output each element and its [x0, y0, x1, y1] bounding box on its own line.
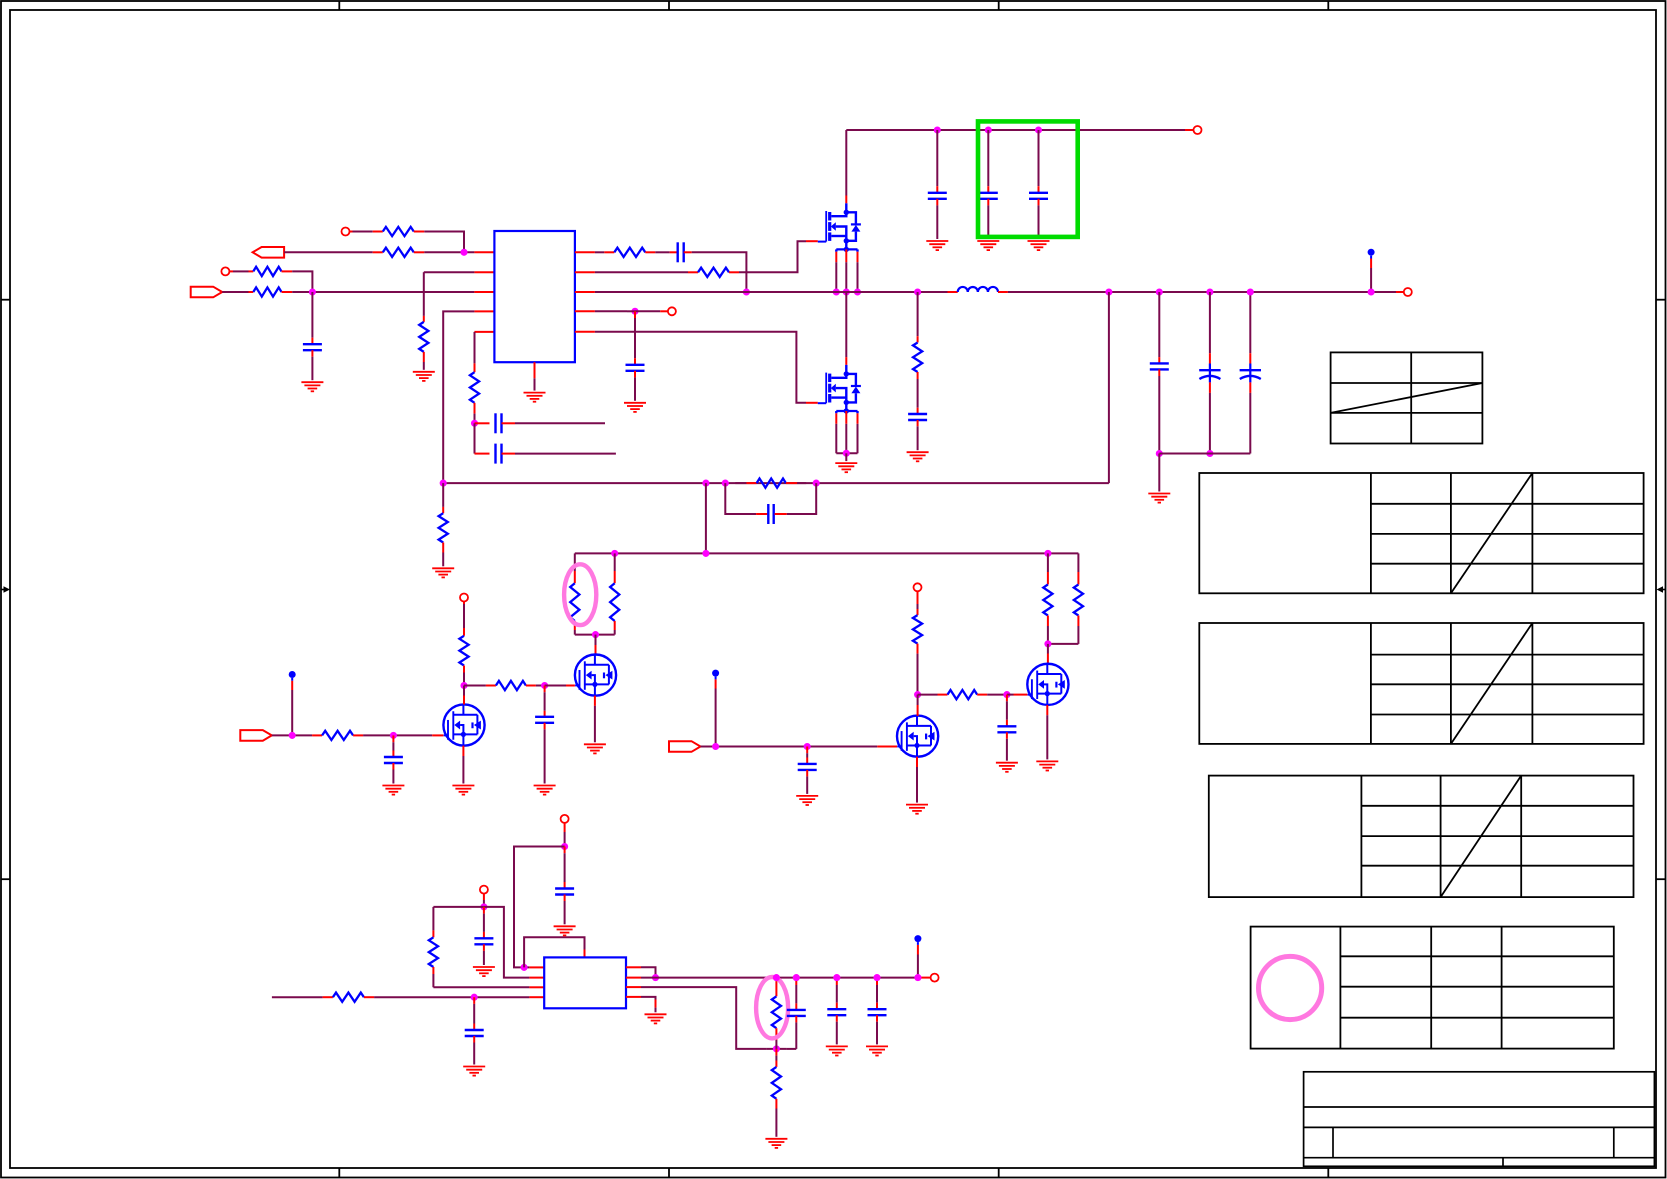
junction — [471, 994, 478, 1001]
capacitor C8 — [1038, 130, 1040, 186]
wire left branch — [433, 906, 484, 908]
no-connect pin P8 — [561, 815, 569, 823]
pin U2 right stubs — [626, 966, 641, 968]
capacitor C6 — [936, 130, 938, 186]
junction — [914, 974, 921, 981]
resistor R16 stage link — [464, 685, 486, 687]
no-connect pin P1 — [342, 228, 350, 236]
no-connect pin P5 — [1404, 288, 1412, 296]
resistor R10 to ground — [442, 483, 444, 507]
wire to bus junction — [292, 271, 312, 292]
wire — [363, 734, 432, 736]
ground — [1028, 240, 1050, 242]
wire M1 drain — [463, 686, 465, 696]
wire — [424, 251, 474, 253]
capacitor C17 — [1006, 695, 1008, 702]
switch node bus wire — [595, 291, 948, 293]
junction — [480, 903, 487, 910]
junction — [1044, 640, 1051, 647]
junction — [390, 732, 397, 739]
junctions on top rail — [934, 126, 941, 133]
no-connect pin P3 — [660, 310, 668, 312]
junction — [843, 450, 850, 457]
wire top rail down to Q1 drain — [845, 130, 847, 196]
revision table T3 — [1199, 623, 1643, 744]
border left ticks — [1, 299, 10, 301]
ground — [765, 1138, 787, 1140]
power flag VOUT — [1368, 249, 1375, 256]
resistor R15 pull-up — [463, 601, 465, 604]
green highlight box — [978, 121, 1078, 236]
wire to pin3 — [433, 986, 529, 988]
ground — [866, 1045, 888, 1047]
ground — [413, 371, 435, 373]
title block T6 — [1304, 1072, 1655, 1167]
junction — [521, 964, 528, 971]
junction — [592, 631, 599, 638]
wire M4 source to ground — [1046, 705, 1048, 715]
wire red Q2 gate lead — [806, 402, 818, 404]
wire red to pin — [1396, 291, 1404, 293]
resistor R23 upper divider — [775, 978, 777, 982]
pin U1 bottom — [534, 362, 536, 378]
ground — [926, 240, 948, 242]
wire — [845, 453, 847, 461]
border top ticks — [338, 1, 340, 10]
wire — [536, 685, 545, 687]
junction — [712, 743, 719, 750]
wire red M3 gate lead — [877, 746, 897, 748]
junction — [813, 480, 820, 487]
junction — [541, 682, 548, 689]
capacitor C4 comp — [475, 422, 490, 424]
no-connect pin P6 pull-up supply — [460, 594, 468, 602]
junction — [1247, 288, 1254, 295]
no-connect pin P4 — [1194, 126, 1202, 134]
ground — [432, 567, 454, 569]
revision table T1 — [1331, 352, 1483, 443]
junction — [743, 288, 750, 295]
ground — [1148, 493, 1170, 495]
ground — [826, 1045, 848, 1047]
wire — [374, 996, 529, 998]
junction — [773, 974, 780, 981]
ground — [534, 785, 556, 787]
junction — [1156, 450, 1163, 457]
resistor R14 gate — [312, 734, 322, 736]
resistor R24 lower divider — [775, 1049, 777, 1056]
feedback wire — [443, 482, 1109, 484]
output bus wire — [1008, 291, 1396, 293]
wire — [349, 231, 352, 233]
pin U1 right stubs — [575, 251, 595, 253]
junction — [1368, 288, 1375, 295]
capacitor C13 feedback loop — [725, 483, 756, 514]
port IN2 arrow — [240, 730, 271, 741]
junction — [914, 288, 921, 295]
wire pair bottom join — [575, 634, 615, 636]
wire enable loop — [514, 847, 565, 968]
junction — [1156, 288, 1163, 295]
input rail wire — [272, 996, 323, 998]
no-connect pin P10 — [931, 974, 939, 982]
wire — [595, 271, 688, 273]
wire — [701, 746, 878, 748]
wire — [595, 332, 806, 403]
transistor M4 PMOS — [1027, 664, 1068, 705]
capacitor C10 — [1158, 292, 1160, 357]
junction — [873, 974, 880, 981]
regulator IC U1 — [494, 231, 575, 362]
ground — [382, 785, 404, 787]
pin U1.1 left — [474, 251, 494, 253]
capacitor C20 — [473, 997, 475, 1004]
wire red inductor lead — [998, 291, 1008, 293]
wire — [515, 453, 616, 455]
ground — [463, 1066, 485, 1068]
ground — [452, 785, 474, 787]
ground — [584, 743, 606, 745]
wire pinR3 sense loop — [641, 987, 766, 1049]
wire red M4 gate lead — [1007, 694, 1014, 696]
transistor M3 NMOS — [897, 716, 938, 757]
middle rail wire — [575, 552, 1079, 554]
ground — [301, 381, 323, 383]
wire — [515, 422, 605, 424]
wire U1 pin2 left — [424, 271, 475, 273]
junction — [1003, 691, 1010, 698]
port IN1 arrow — [191, 287, 223, 298]
wire — [564, 823, 566, 832]
wire red to pin — [1185, 129, 1194, 131]
junction — [702, 550, 709, 557]
wire — [229, 270, 233, 272]
wire — [766, 1048, 786, 1050]
Q2 source pin wires — [835, 424, 837, 454]
wire — [595, 310, 627, 312]
ground — [835, 462, 857, 464]
wire red inductor lead — [948, 291, 958, 293]
resistor R22 input — [323, 996, 333, 998]
Q1 source pin wires to switch node — [835, 262, 837, 292]
ground — [473, 966, 495, 968]
capacitor C19 — [483, 907, 485, 914]
capacitor C3 — [634, 311, 636, 318]
junction — [561, 843, 568, 850]
port IN3 arrow — [669, 741, 701, 752]
capacitor C23 — [876, 978, 878, 985]
capacitor C21 — [795, 978, 797, 985]
resistor R6 — [604, 251, 614, 253]
capacitor C7 — [987, 130, 989, 186]
resistor R2 — [373, 251, 383, 253]
capacitor C12 polarized — [1249, 292, 1251, 353]
wire down — [474, 423, 476, 453]
wire pinR1 to output — [641, 967, 656, 977]
ground — [977, 240, 999, 242]
junction — [460, 249, 467, 256]
wire — [483, 893, 485, 900]
stamp table T5 — [1251, 927, 1614, 1049]
transistor M1 NMOS — [443, 704, 484, 745]
junction — [460, 682, 467, 689]
resistor R17 parallel pair left — [1047, 553, 1049, 572]
capacitor C16 gate — [806, 747, 808, 754]
ground — [624, 402, 646, 404]
resistor R9 divider from switch node — [917, 292, 919, 336]
capacitor C5 comp — [475, 453, 490, 455]
junction — [722, 480, 729, 487]
wire M2 source to ground — [594, 696, 596, 706]
junctions switch node — [833, 288, 840, 295]
junction — [914, 691, 921, 698]
resistor R11 feedback — [746, 482, 756, 484]
capacitor C14 gate — [392, 735, 394, 742]
resistor R21 — [432, 907, 434, 931]
wire pinR4 to ground — [641, 997, 656, 1000]
wire — [284, 251, 373, 253]
wire up to Q1 gate — [739, 241, 806, 272]
wire red M1 gate lead — [432, 734, 443, 736]
wire Q2 drain from switch node — [845, 292, 847, 357]
wire — [987, 694, 1007, 696]
resistor R13 parallel pair right — [614, 553, 616, 571]
regulator IC U2 — [544, 957, 626, 1008]
revision table T4 — [1209, 776, 1634, 898]
capacitor C11 polarized — [1209, 292, 1211, 353]
revision table T2 — [1199, 473, 1643, 593]
pink highlight ellipse E2 — [756, 977, 788, 1038]
pink stamp circle — [1259, 956, 1322, 1019]
wire down to switch node — [692, 252, 747, 292]
capacitor C1 — [311, 292, 313, 338]
ground — [554, 925, 576, 927]
wire FB vertical — [443, 311, 474, 483]
resistor R4 — [249, 291, 254, 293]
junction — [804, 743, 811, 750]
pin U2 top — [584, 950, 586, 958]
junction — [773, 1045, 780, 1052]
junction — [611, 550, 618, 557]
wire — [424, 232, 464, 253]
transistor Q2 low-side NMOS — [845, 357, 847, 365]
resistor R12 parallel pair left — [574, 553, 576, 571]
capacitor C15 — [544, 686, 546, 693]
wire to top pin — [524, 937, 584, 967]
no-connect pin P9 — [480, 886, 488, 894]
ground — [1036, 760, 1058, 762]
junction — [1206, 288, 1213, 295]
wire — [474, 332, 476, 364]
capacitor C2 — [670, 251, 678, 253]
wire source join — [836, 452, 857, 454]
wire — [222, 291, 248, 293]
wire loop corner — [786, 1048, 796, 1050]
wire M4 drain lead — [1047, 644, 1049, 654]
power flag LDO out — [914, 935, 921, 942]
power flag right block — [712, 670, 719, 677]
pin U1 left stubs — [474, 271, 494, 273]
ground — [907, 451, 929, 453]
wire M3 source to ground — [916, 757, 918, 767]
wire — [272, 734, 312, 736]
resistor R8 comp — [474, 363, 476, 372]
wire right branch — [484, 907, 530, 978]
ground — [796, 795, 818, 797]
capacitor C18 — [564, 847, 566, 854]
inductor L1 — [958, 287, 998, 292]
junction — [471, 420, 478, 427]
junction — [1105, 288, 1112, 295]
wire M2 drain lead — [595, 635, 597, 645]
junction — [793, 974, 800, 981]
wire pair bottom join — [1048, 643, 1079, 645]
junction — [1044, 550, 1051, 557]
border left center arrow — [1, 589, 6, 591]
wire — [1158, 454, 1160, 492]
junction — [440, 480, 447, 487]
resistor R3 — [249, 270, 254, 272]
border bottom ticks — [338, 1168, 340, 1178]
no-connect pin P7 pull-up supply — [914, 583, 922, 591]
transistor M2 PMOS — [575, 655, 616, 696]
pink highlight ellipse E1 — [564, 564, 596, 625]
wire — [627, 310, 635, 312]
resistor R20 stage link — [918, 694, 938, 696]
wire cap bottoms join — [1159, 453, 1250, 455]
wire divider tap down — [705, 483, 707, 553]
wire — [595, 251, 604, 253]
wire — [655, 251, 669, 253]
junction — [631, 308, 638, 315]
capacitor C22 — [836, 978, 838, 985]
junction — [702, 480, 709, 487]
wire red to pin — [920, 977, 931, 979]
resistor R5 to ground — [423, 272, 425, 316]
wire M1 source to ground — [462, 746, 464, 756]
resistor R19 pull-up — [917, 591, 919, 604]
ground — [645, 1013, 667, 1015]
wire M3 drain — [917, 695, 919, 705]
capacitor C9 — [917, 408, 919, 414]
no-connect pin P2 — [221, 267, 229, 275]
ground — [906, 804, 928, 806]
transistor Q1 high-side NMOS — [845, 196, 847, 204]
resistor R18 parallel pair right — [1077, 553, 1079, 572]
junction — [289, 732, 296, 739]
junction — [652, 974, 659, 981]
border right ticks — [1656, 299, 1666, 301]
power flag left block — [289, 671, 296, 678]
output rail wire — [641, 977, 918, 979]
pin U2 left stubs — [529, 966, 544, 968]
resistor R1 — [373, 231, 383, 233]
wire up to output bus — [1108, 292, 1110, 483]
junction — [833, 974, 840, 981]
port OUT1 arrow — [253, 247, 285, 258]
top rail wire — [846, 129, 1185, 131]
junction — [1206, 450, 1213, 457]
ground — [524, 392, 546, 394]
wire bus to U1 — [292, 291, 474, 293]
wire red Q1 gate lead — [806, 240, 818, 242]
resistor R7 — [688, 271, 698, 273]
wire red M2 gate lead — [545, 685, 566, 687]
border right center arrow — [1661, 589, 1666, 591]
junction node VIN — [309, 288, 316, 295]
ground — [996, 762, 1018, 764]
